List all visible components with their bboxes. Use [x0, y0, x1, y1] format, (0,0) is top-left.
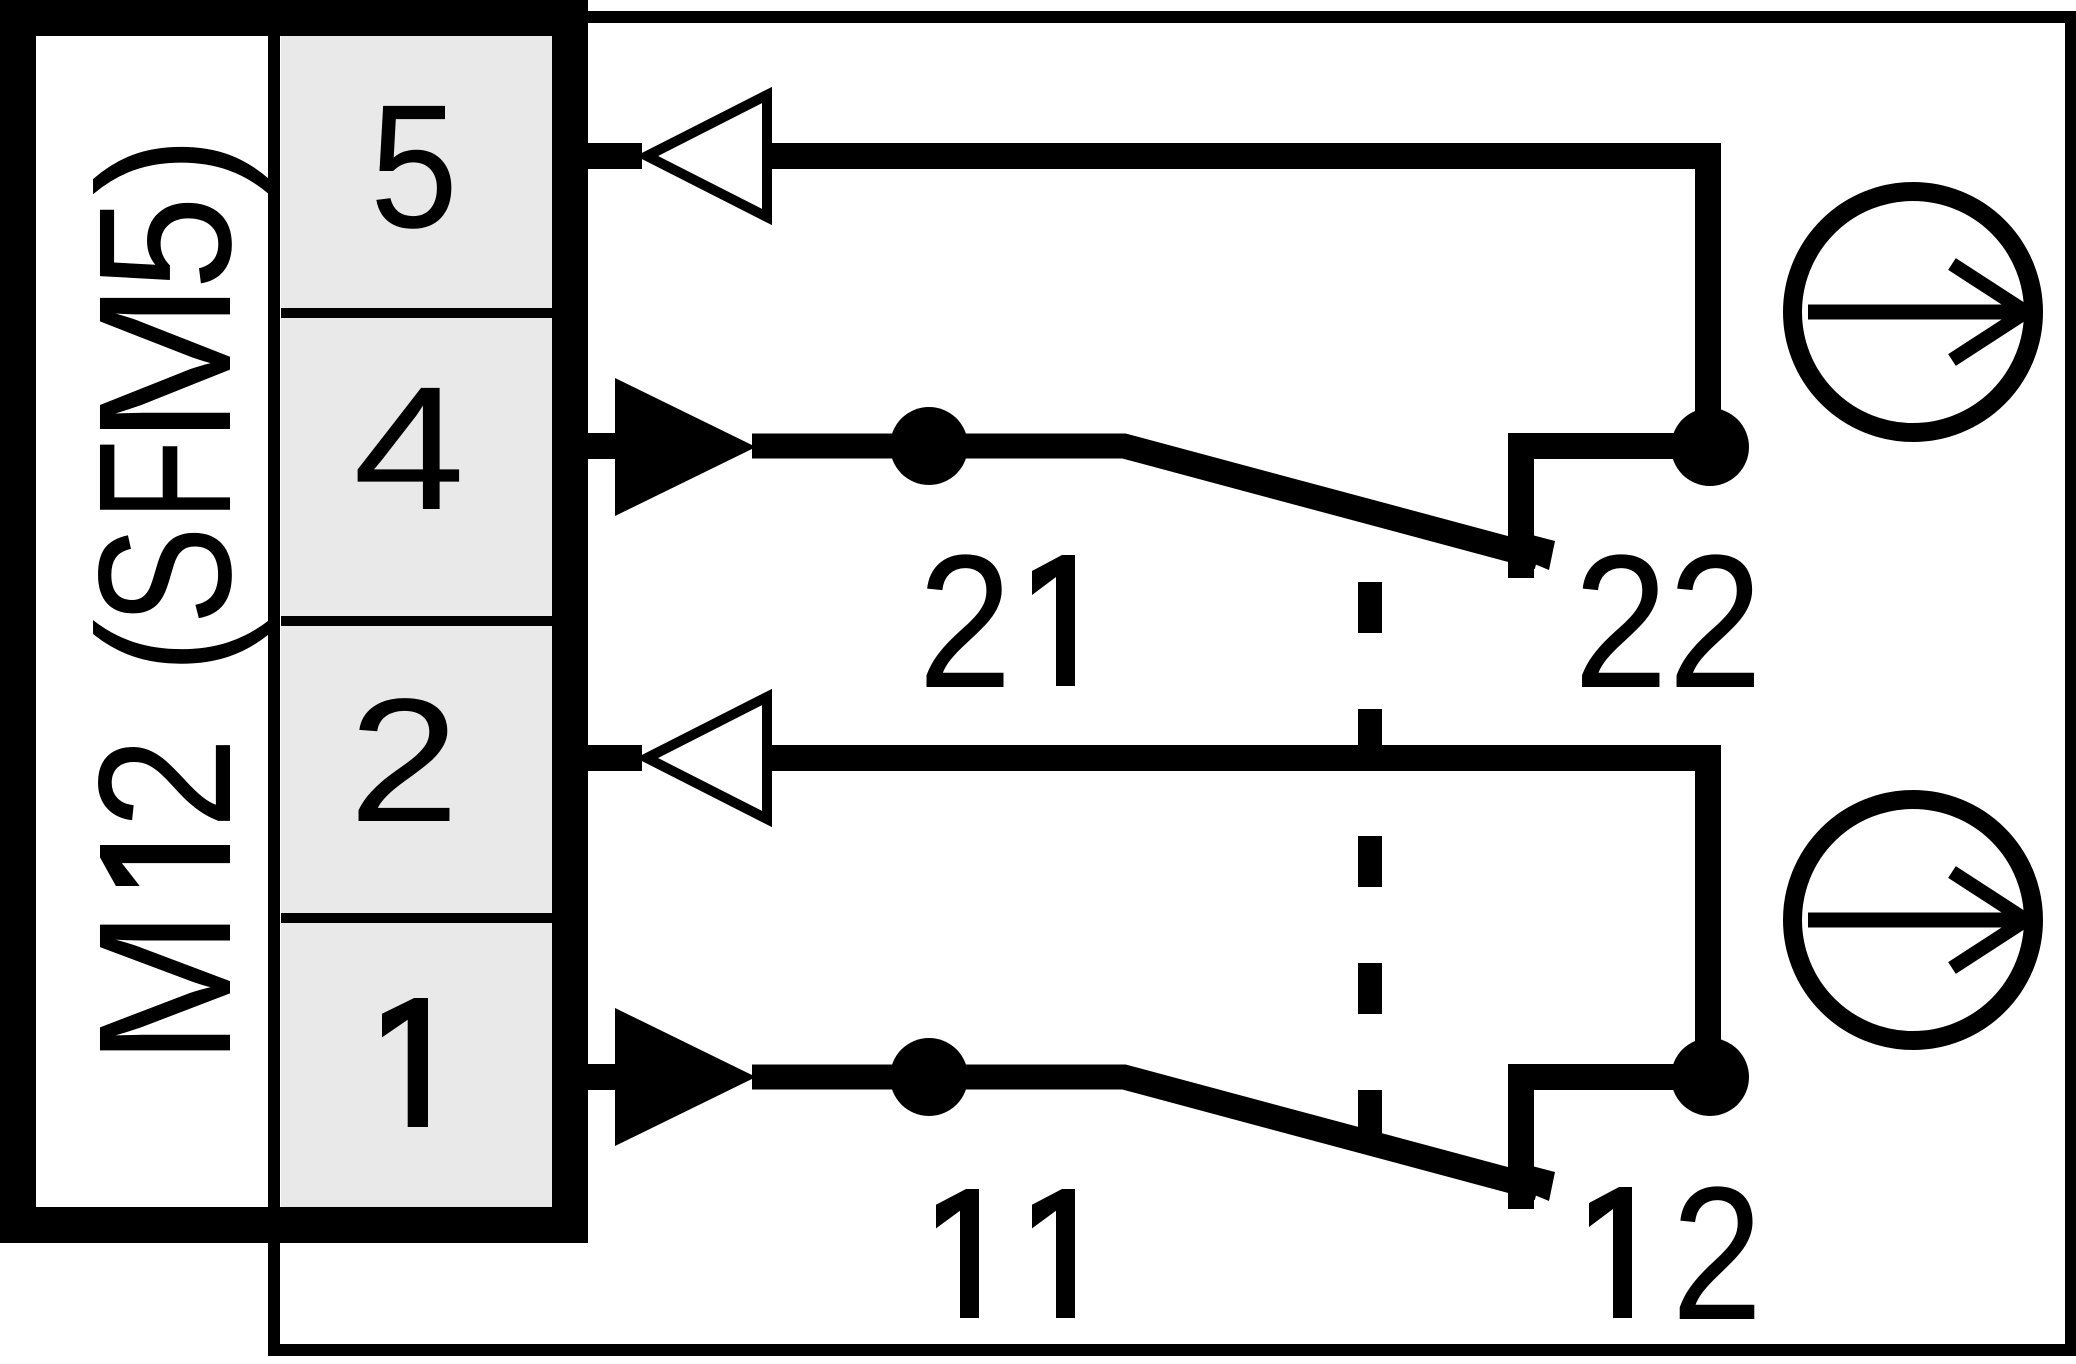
svg-text:S: S	[60, 526, 271, 625]
svg-text:): )	[60, 136, 271, 196]
svg-text:2: 2	[60, 737, 271, 829]
svg-text:2: 2	[918, 516, 1012, 728]
svg-text:4: 4	[353, 351, 465, 547]
svg-text:(: (	[60, 619, 271, 674]
svg-text:2: 2	[349, 663, 460, 859]
svg-text:5: 5	[60, 196, 271, 290]
svg-text:M: M	[60, 282, 271, 445]
svg-text:F: F	[60, 439, 271, 520]
svg-text:M: M	[60, 909, 271, 1066]
svg-text:2: 2	[1672, 1148, 1763, 1360]
svg-text:5: 5	[370, 69, 458, 265]
svg-text:22: 22	[1574, 516, 1763, 728]
